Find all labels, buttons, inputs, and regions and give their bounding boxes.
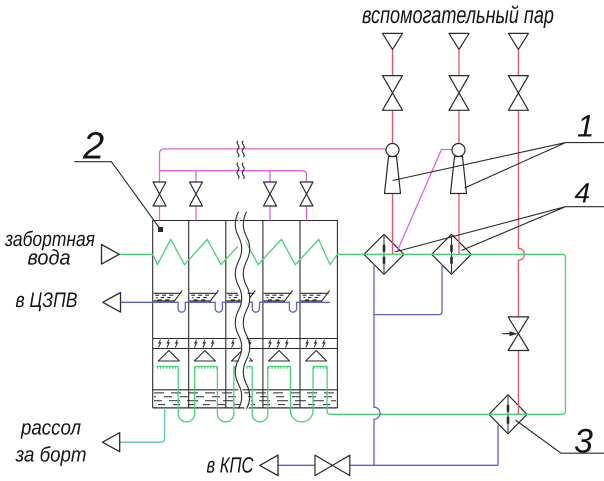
ejector U1a: [385, 144, 401, 194]
cyan brine overboard line: [120, 408, 165, 442]
svg-text:3: 3: [574, 423, 593, 461]
leaders of item 4 (diamond condensers): [395, 207, 604, 252]
stage roof triangles: [158, 351, 326, 362]
steam inlet funnels: [383, 33, 403, 49]
to ЦЗПВ arrow: [103, 293, 121, 313]
condensate trays inside each stage: [154, 290, 330, 302]
break squiggles on magenta headers: [237, 141, 244, 179]
blue condensate from condenser 3: [497, 425, 499, 466]
evaporator block shell (item 2): [153, 221, 338, 408]
svg-text:вспомогательный пар: вспомогательный пар: [362, 2, 554, 29]
svg-text:2: 2: [82, 126, 104, 168]
actuator arrow of regulating valve: [503, 333, 511, 335]
svg-text:рассол: рассол: [20, 417, 81, 440]
green spray combs in stages: [156, 366, 178, 368]
svg-text:за борт: за борт: [15, 444, 87, 467]
valve on КПС line: [315, 455, 350, 475]
blue condensate from diamond B: [374, 264, 442, 314]
regulating valve on red line 3: [508, 317, 529, 351]
svg-text:1: 1: [577, 109, 594, 144]
svg-text:в ЦЗПВ: в ЦЗПВ: [16, 289, 78, 312]
blue bottom header to КПС: [278, 464, 498, 466]
brine overboard arrow: [103, 433, 120, 452]
svg-text:вода: вода: [28, 246, 71, 269]
magenta vapour line from stages to ejector 1: [160, 149, 453, 251]
condenser 3 (diamond): [489, 395, 527, 434]
magenta line condenser A to ejector 2: [398, 150, 453, 251]
leader of item 2: [74, 162, 160, 230]
blue distillate line through stages to ЦЗПВ: [121, 264, 499, 465]
magenta header to stage valves: [160, 171, 307, 221]
red auxiliary steam line 2: [458, 49, 460, 254]
red auxiliary steam line 1: [393, 49, 525, 414]
blue condensate from diamond A: [374, 264, 380, 465]
svg-text:4: 4: [575, 177, 591, 208]
sea water inlet arrow: [102, 245, 120, 265]
ejector U1b: [451, 144, 467, 194]
wire: valve drops: [196, 171, 270, 221]
heating zigzag (lightning) marks: [159, 340, 325, 348]
water level dashes in sump: [154, 393, 336, 405]
break wavy lines of block: [235, 212, 249, 409]
brine sump strip: [153, 390, 338, 408]
leader of item 3: [516, 420, 604, 453]
vapour valves on magenta drops: [153, 182, 166, 206]
steam valves on red lines: [383, 76, 403, 111]
leaders of item 1 (ejectors): [393, 143, 604, 188]
green sea water inlet and heater coil zigzag: [119, 239, 566, 422]
svg-text:в КПС: в КПС: [207, 453, 254, 478]
to КПС arrow: [260, 455, 278, 476]
ejector condenser U4b (diamond): [432, 234, 472, 274]
ejector condenser U4a (diamond): [364, 234, 404, 274]
red auxiliary steam line 3 with hop over green: [518, 49, 524, 414]
green cascade U-tubes under sump: [178, 367, 194, 422]
break masking ribbon: [239, 222, 246, 406]
